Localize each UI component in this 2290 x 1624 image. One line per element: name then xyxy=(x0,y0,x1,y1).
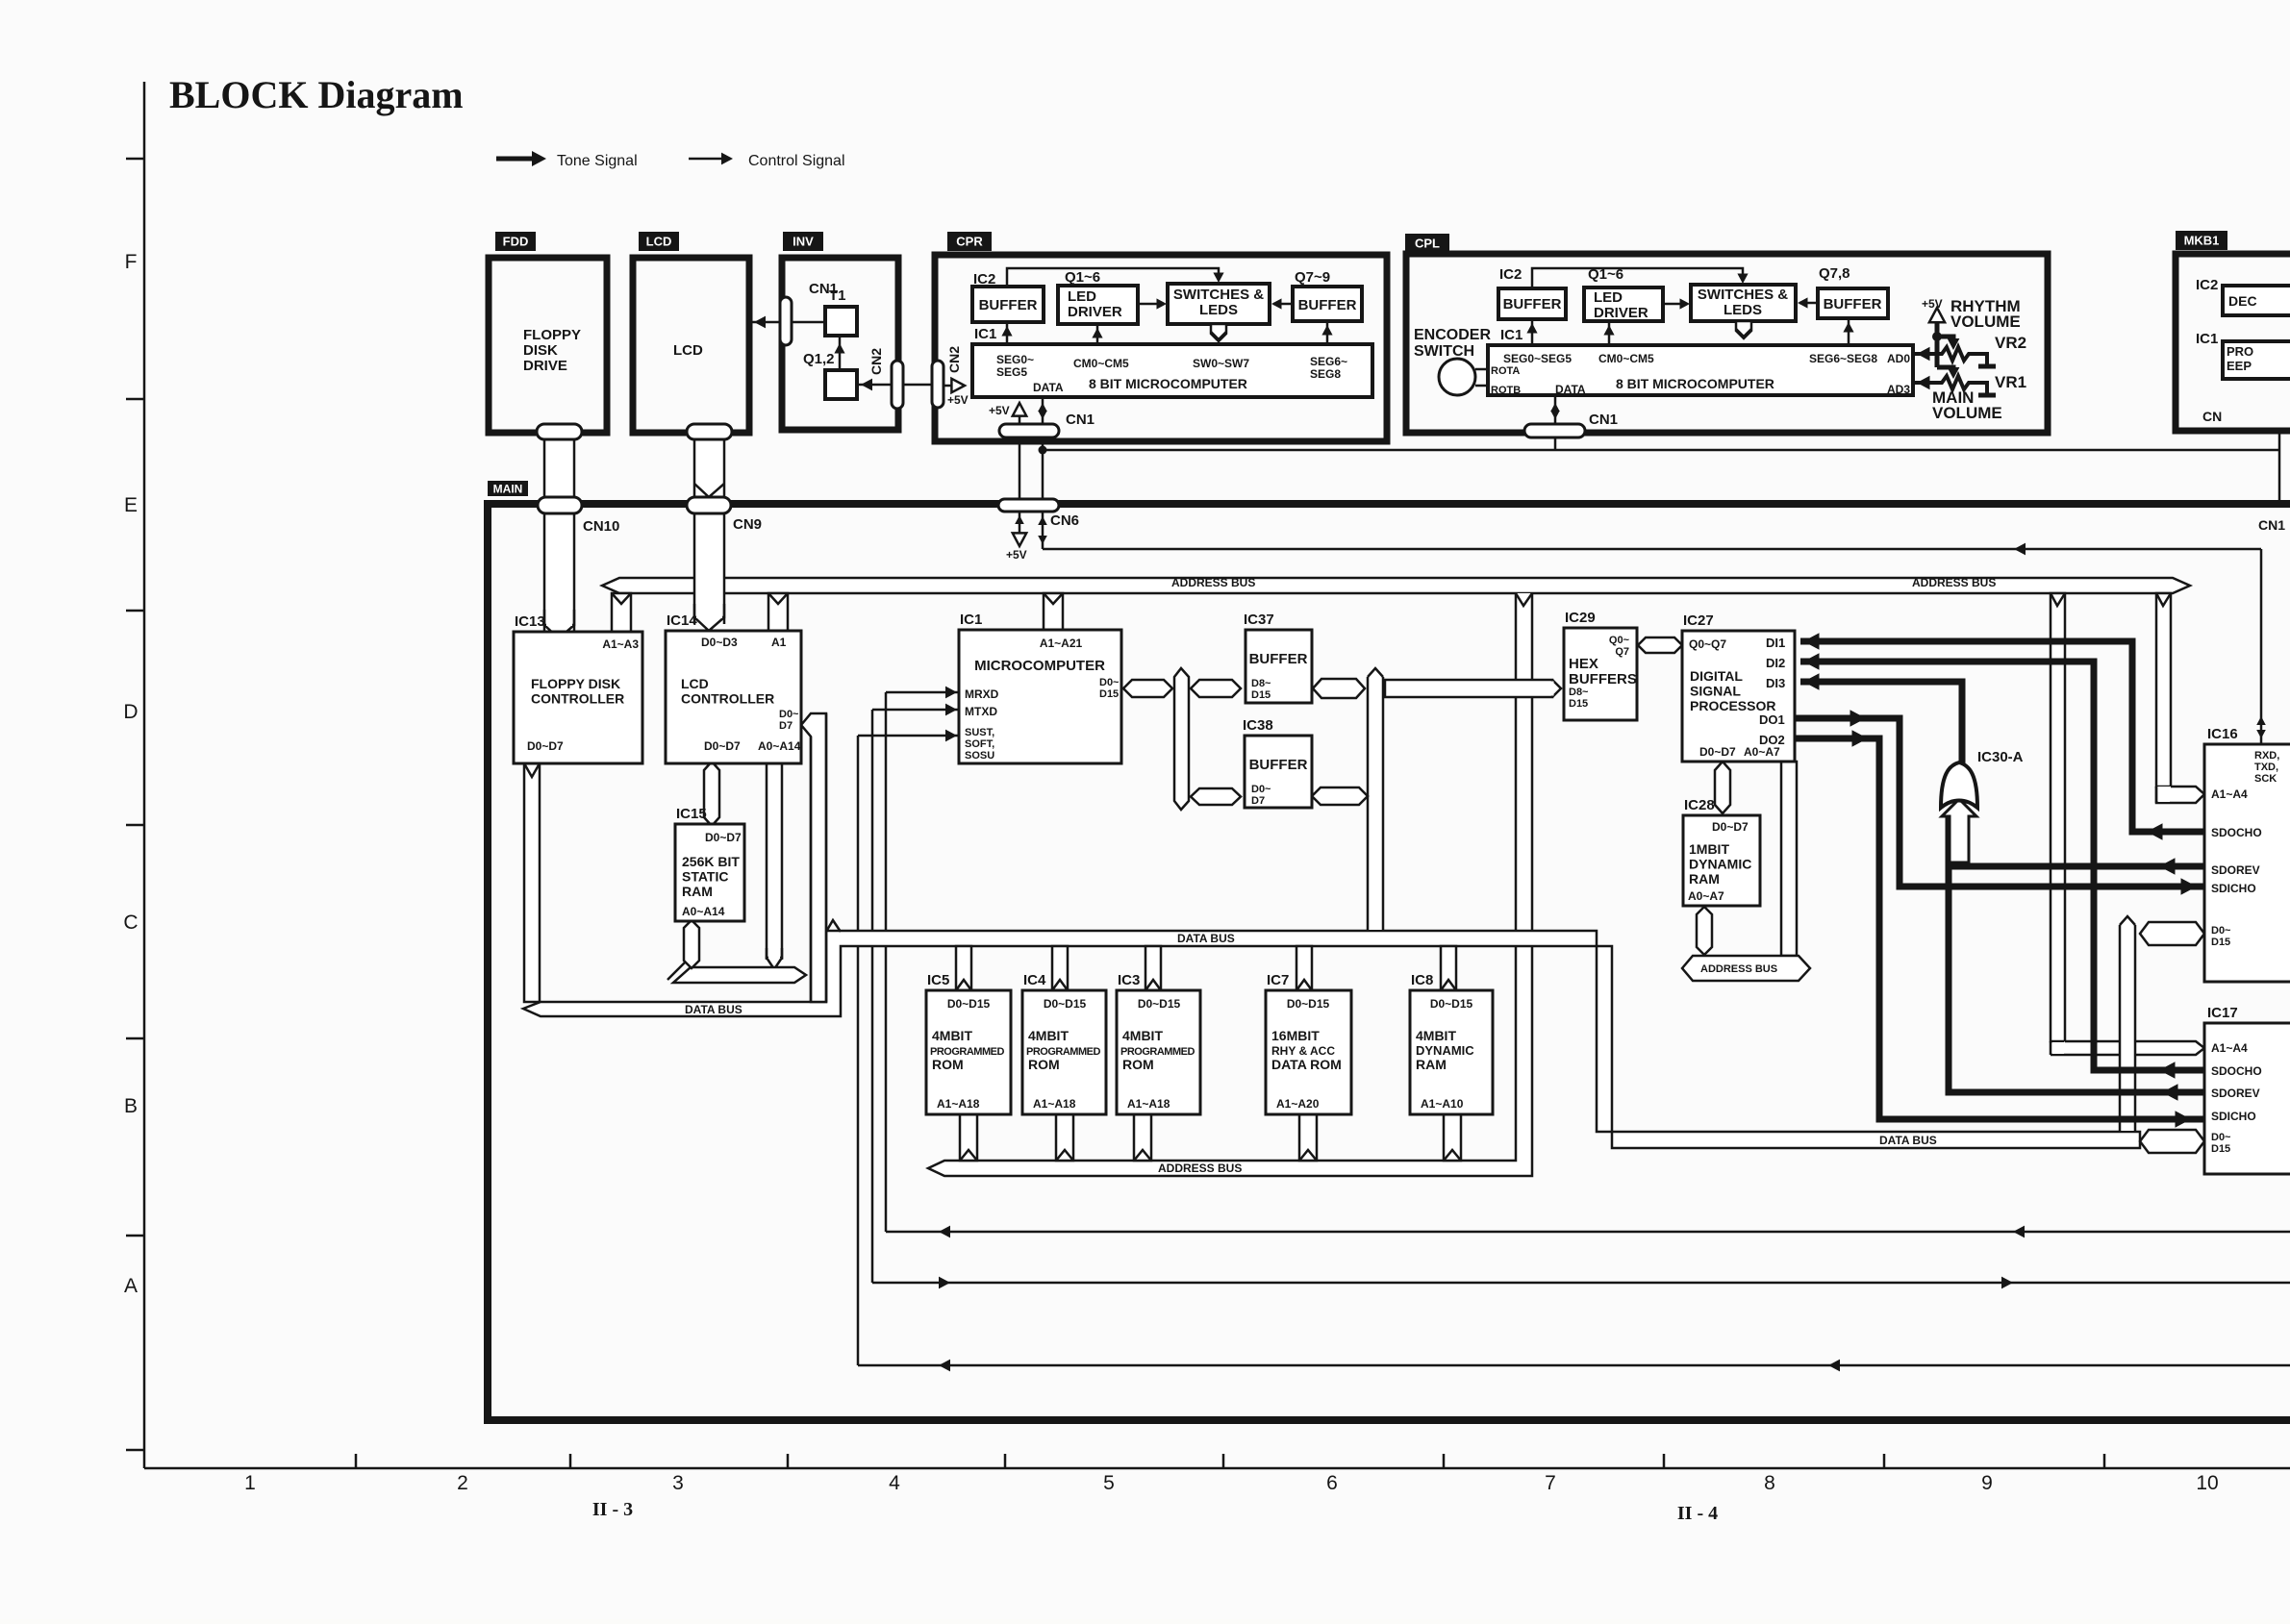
svg-text:SEG0~: SEG0~ xyxy=(996,353,1034,366)
svg-text:D15: D15 xyxy=(1099,688,1119,700)
svg-text:SUST,: SUST, xyxy=(965,727,994,738)
svg-text:A1~A18: A1~A18 xyxy=(1033,1097,1076,1111)
svg-text:256K BIT: 256K BIT xyxy=(682,854,740,869)
svg-text:SCK: SCK xyxy=(2254,773,2277,785)
svg-text:D7: D7 xyxy=(779,720,793,732)
svg-text:D0~: D0~ xyxy=(1251,784,1271,795)
svg-text:CN6: CN6 xyxy=(1050,512,1079,529)
svg-text:4MBIT: 4MBIT xyxy=(932,1028,972,1043)
svg-text:BUFFER: BUFFER xyxy=(1298,297,1357,313)
svg-text:C: C xyxy=(123,912,138,934)
svg-text:AD3: AD3 xyxy=(1887,383,1910,396)
svg-text:LEDS: LEDS xyxy=(1199,302,1238,318)
svg-text:IC4: IC4 xyxy=(1023,972,1046,988)
svg-text:6: 6 xyxy=(1326,1472,1338,1494)
svg-text:D0~D15: D0~D15 xyxy=(1138,997,1181,1011)
svg-text:FLOPPY: FLOPPY xyxy=(523,327,581,343)
svg-text:BUFFER: BUFFER xyxy=(1249,757,1308,773)
svg-text:CN1: CN1 xyxy=(1589,412,1618,428)
svg-text:CN2: CN2 xyxy=(868,348,884,375)
svg-text:CN9: CN9 xyxy=(733,516,762,533)
svg-text:A0~A7: A0~A7 xyxy=(1688,889,1724,903)
svg-text:CPR: CPR xyxy=(956,235,983,249)
svg-text:A0~A14: A0~A14 xyxy=(682,905,725,918)
svg-text:4: 4 xyxy=(889,1472,900,1494)
svg-text:D0~D7: D0~D7 xyxy=(527,739,564,753)
svg-text:DATA ROM: DATA ROM xyxy=(1271,1057,1342,1072)
svg-text:D15: D15 xyxy=(1251,689,1271,701)
svg-text:CN1: CN1 xyxy=(2258,517,2285,533)
svg-text:B: B xyxy=(124,1095,138,1117)
svg-text:IC17: IC17 xyxy=(2207,1005,2238,1021)
svg-text:IC1: IC1 xyxy=(974,326,996,342)
svg-text:D0~D7: D0~D7 xyxy=(705,831,742,844)
svg-text:FLOPPY DISK: FLOPPY DISK xyxy=(531,676,620,691)
svg-text:SDOCHO: SDOCHO xyxy=(2211,826,2262,839)
svg-text:ROTA: ROTA xyxy=(1491,365,1520,377)
svg-text:EEP: EEP xyxy=(2227,359,2252,373)
svg-text:RXD,: RXD, xyxy=(2254,750,2279,762)
svg-text:RHY & ACC: RHY & ACC xyxy=(1271,1044,1335,1058)
svg-text:IC37: IC37 xyxy=(1244,612,1274,628)
svg-text:Q7,8: Q7,8 xyxy=(1819,265,1850,282)
svg-text:CONTROLLER: CONTROLLER xyxy=(531,691,624,707)
svg-text:IC28: IC28 xyxy=(1684,797,1715,813)
svg-text:MAIN: MAIN xyxy=(493,482,523,495)
svg-text:IC3: IC3 xyxy=(1118,972,1140,988)
svg-text:SDOCHO: SDOCHO xyxy=(2211,1064,2262,1078)
svg-text:Q1,2: Q1,2 xyxy=(803,351,835,367)
svg-text:AD0: AD0 xyxy=(1887,352,1910,365)
svg-text:D0~D15: D0~D15 xyxy=(1287,997,1330,1011)
svg-text:LEDS: LEDS xyxy=(1724,302,1762,318)
svg-text:D0~D15: D0~D15 xyxy=(1044,997,1087,1011)
svg-text:CM0~CM5: CM0~CM5 xyxy=(1073,357,1129,370)
svg-text:E: E xyxy=(124,494,138,516)
svg-text:D0~D15: D0~D15 xyxy=(1430,997,1473,1011)
svg-text:IC1: IC1 xyxy=(960,612,982,628)
svg-text:MICROCOMPUTER: MICROCOMPUTER xyxy=(974,658,1105,674)
svg-text:A1~A21: A1~A21 xyxy=(1040,637,1083,650)
svg-text:D8~: D8~ xyxy=(1569,687,1589,698)
svg-text:ENCODER: ENCODER xyxy=(1414,327,1491,343)
svg-text:SDOREV: SDOREV xyxy=(2211,863,2260,877)
svg-text:A0~A14: A0~A14 xyxy=(758,739,801,753)
svg-text:CM0~CM5: CM0~CM5 xyxy=(1598,352,1654,365)
svg-text:4MBIT: 4MBIT xyxy=(1122,1028,1163,1043)
svg-text:BUFFER: BUFFER xyxy=(1824,296,1882,312)
svg-text:DATA: DATA xyxy=(1555,383,1586,396)
svg-text:DO1: DO1 xyxy=(1759,712,1785,727)
svg-text:D15: D15 xyxy=(1569,698,1588,710)
svg-text:VR2: VR2 xyxy=(1995,334,2026,352)
svg-text:MRXD: MRXD xyxy=(965,687,999,701)
svg-text:SIGNAL: SIGNAL xyxy=(1690,684,1741,699)
svg-text:D0~: D0~ xyxy=(779,709,799,720)
svg-text:ADDRESS BUS: ADDRESS BUS xyxy=(1171,576,1255,589)
svg-text:ADDRESS BUS: ADDRESS BUS xyxy=(1158,1162,1242,1175)
svg-text:BLOCK Diagram: BLOCK Diagram xyxy=(169,73,464,116)
svg-text:D: D xyxy=(123,701,138,723)
svg-text:VOLUME: VOLUME xyxy=(1950,312,2021,331)
svg-text:DRIVE: DRIVE xyxy=(523,358,567,374)
svg-text:BUFFER: BUFFER xyxy=(1249,651,1308,667)
svg-text:ROM: ROM xyxy=(1028,1057,1060,1072)
svg-text:4MBIT: 4MBIT xyxy=(1416,1028,1456,1043)
svg-text:IC30-A: IC30-A xyxy=(1977,749,2024,765)
svg-text:IC29: IC29 xyxy=(1565,610,1596,626)
svg-text:T1: T1 xyxy=(829,287,846,304)
svg-text:8 BIT MICROCOMPUTER: 8 BIT MICROCOMPUTER xyxy=(1089,376,1247,391)
svg-text:IC2: IC2 xyxy=(2196,277,2218,293)
svg-text:IC5: IC5 xyxy=(927,972,949,988)
svg-text:ADDRESS BUS: ADDRESS BUS xyxy=(1912,576,1996,589)
svg-text:DATA: DATA xyxy=(1033,381,1064,394)
svg-text:+5V: +5V xyxy=(989,404,1010,417)
svg-text:9: 9 xyxy=(1981,1472,1993,1494)
svg-text:TXD,: TXD, xyxy=(2254,762,2278,773)
svg-text:+5V: +5V xyxy=(947,393,969,407)
svg-text:SWITCHES &: SWITCHES & xyxy=(1698,287,1788,303)
svg-text:II - 4: II - 4 xyxy=(1677,1503,1718,1524)
svg-text:SEG6~: SEG6~ xyxy=(1310,355,1347,368)
svg-text:DRIVER: DRIVER xyxy=(1068,304,1122,320)
svg-text:VR1: VR1 xyxy=(1995,373,2026,391)
svg-text:F: F xyxy=(125,251,138,273)
svg-text:+5V: +5V xyxy=(1922,297,1943,311)
svg-text:2: 2 xyxy=(457,1472,468,1494)
svg-text:SW0~SW7: SW0~SW7 xyxy=(1193,357,1249,370)
svg-text:A1~A20: A1~A20 xyxy=(1276,1097,1320,1111)
svg-text:A1~A3: A1~A3 xyxy=(602,637,639,651)
svg-text:7: 7 xyxy=(1545,1472,1556,1494)
svg-text:IC27: IC27 xyxy=(1683,612,1714,629)
svg-text:MKB1: MKB1 xyxy=(2184,234,2220,248)
svg-text:LED: LED xyxy=(1068,288,1096,305)
svg-text:RAM: RAM xyxy=(1689,871,1720,887)
svg-text:RAM: RAM xyxy=(682,884,713,899)
svg-text:D0~: D0~ xyxy=(1099,677,1120,688)
svg-text:DATA BUS: DATA BUS xyxy=(685,1003,742,1016)
svg-text:CN10: CN10 xyxy=(583,518,619,535)
svg-text:Q1~6: Q1~6 xyxy=(1065,269,1100,286)
svg-text:IC14: IC14 xyxy=(667,612,697,629)
svg-text:Q7: Q7 xyxy=(1615,646,1629,658)
svg-text:IC7: IC7 xyxy=(1267,972,1289,988)
svg-text:ROM: ROM xyxy=(932,1057,964,1072)
svg-text:D0~D7: D0~D7 xyxy=(704,739,741,753)
svg-text:LED: LED xyxy=(1594,289,1623,306)
svg-text:CN: CN xyxy=(2202,409,2222,424)
svg-text:D0~D15: D0~D15 xyxy=(947,997,991,1011)
svg-text:3: 3 xyxy=(672,1472,684,1494)
svg-text:ROM: ROM xyxy=(1122,1057,1154,1072)
svg-text:HEX: HEX xyxy=(1569,656,1598,672)
svg-text:CONTROLLER: CONTROLLER xyxy=(681,691,774,707)
svg-text:SOSU: SOSU xyxy=(965,750,994,762)
svg-text:DI3: DI3 xyxy=(1766,676,1785,690)
svg-text:A1~A18: A1~A18 xyxy=(1127,1097,1170,1111)
svg-text:LCD: LCD xyxy=(681,676,709,691)
svg-text:A1: A1 xyxy=(771,636,787,649)
svg-text:D0~D7: D0~D7 xyxy=(1699,745,1736,759)
svg-text:SDICHO: SDICHO xyxy=(2211,1110,2256,1123)
svg-text:DI1: DI1 xyxy=(1766,636,1785,650)
svg-text:DISK: DISK xyxy=(523,342,558,359)
svg-text:SDOREV: SDOREV xyxy=(2211,1087,2260,1100)
svg-text:1MBIT: 1MBIT xyxy=(1689,841,1729,857)
svg-text:Q7~9: Q7~9 xyxy=(1295,269,1330,286)
svg-text:16MBIT: 16MBIT xyxy=(1271,1028,1320,1043)
svg-text:4MBIT: 4MBIT xyxy=(1028,1028,1069,1043)
svg-text:DYNAMIC: DYNAMIC xyxy=(1689,857,1751,872)
svg-text:A1~A4: A1~A4 xyxy=(2211,787,2248,801)
svg-text:Control Signal: Control Signal xyxy=(748,153,845,169)
svg-text:SWITCH: SWITCH xyxy=(1414,343,1474,360)
svg-text:5: 5 xyxy=(1103,1472,1115,1494)
svg-text:D15: D15 xyxy=(2211,937,2230,948)
svg-text:10: 10 xyxy=(2196,1472,2218,1494)
svg-text:DEC: DEC xyxy=(2228,293,2257,309)
svg-text:SOFT,: SOFT, xyxy=(965,738,994,750)
svg-text:8 BIT MICROCOMPUTER: 8 BIT MICROCOMPUTER xyxy=(1616,376,1774,391)
svg-text:SEG8: SEG8 xyxy=(1310,367,1341,381)
svg-text:IC16: IC16 xyxy=(2207,726,2238,742)
svg-text:RAM: RAM xyxy=(1416,1057,1447,1072)
svg-text:D0~: D0~ xyxy=(2211,1132,2231,1143)
svg-text:CN1: CN1 xyxy=(1066,412,1095,428)
svg-text:D0~: D0~ xyxy=(2211,925,2231,937)
svg-text:1: 1 xyxy=(244,1472,256,1494)
svg-text:PRO: PRO xyxy=(2227,344,2253,359)
svg-text:MTXD: MTXD xyxy=(965,705,997,718)
svg-text:SDICHO: SDICHO xyxy=(2211,882,2256,895)
svg-text:LCD: LCD xyxy=(646,235,672,249)
svg-text:DRIVER: DRIVER xyxy=(1594,305,1648,321)
svg-text:8: 8 xyxy=(1764,1472,1775,1494)
svg-text:IC1: IC1 xyxy=(1500,327,1522,343)
svg-text:II - 3: II - 3 xyxy=(592,1499,633,1520)
svg-text:SEG0~SEG5: SEG0~SEG5 xyxy=(1503,352,1572,365)
svg-text:SEG6~SEG8: SEG6~SEG8 xyxy=(1809,352,1877,365)
svg-text:A1~A18: A1~A18 xyxy=(937,1097,980,1111)
svg-text:D0~D3: D0~D3 xyxy=(701,636,738,649)
svg-text:SWITCHES &: SWITCHES & xyxy=(1173,287,1264,303)
svg-text:A1~A10: A1~A10 xyxy=(1421,1097,1464,1111)
svg-text:DATA BUS: DATA BUS xyxy=(1879,1134,1937,1147)
svg-text:Q0~: Q0~ xyxy=(1609,635,1630,646)
svg-text:CPL: CPL xyxy=(1415,237,1440,251)
svg-text:ROTB: ROTB xyxy=(1491,385,1521,396)
svg-text:IC38: IC38 xyxy=(1243,717,1273,734)
svg-text:Q0~Q7: Q0~Q7 xyxy=(1689,637,1726,651)
svg-text:D7: D7 xyxy=(1251,795,1265,807)
svg-text:INV: INV xyxy=(793,235,814,249)
svg-text:BUFFERS: BUFFERS xyxy=(1569,671,1637,687)
svg-text:PROCESSOR: PROCESSOR xyxy=(1690,698,1775,713)
svg-text:CN2: CN2 xyxy=(946,346,962,373)
svg-text:D15: D15 xyxy=(2211,1143,2230,1155)
svg-text:IC15: IC15 xyxy=(676,806,707,822)
svg-text:A: A xyxy=(124,1275,138,1297)
svg-text:A0~A7: A0~A7 xyxy=(1744,745,1780,759)
svg-text:A1~A4: A1~A4 xyxy=(2211,1041,2248,1055)
svg-text:SEG5: SEG5 xyxy=(996,365,1027,379)
svg-text:IC1: IC1 xyxy=(2196,331,2218,347)
svg-text:IC8: IC8 xyxy=(1411,972,1433,988)
svg-text:DI2: DI2 xyxy=(1766,656,1785,670)
svg-text:+5V: +5V xyxy=(1006,548,1027,562)
svg-text:BUFFER: BUFFER xyxy=(1503,296,1562,312)
svg-text:DYNAMIC: DYNAMIC xyxy=(1416,1043,1474,1058)
svg-text:DIGITAL: DIGITAL xyxy=(1690,668,1743,684)
svg-text:D0~D7: D0~D7 xyxy=(1712,820,1749,834)
svg-text:D8~: D8~ xyxy=(1251,678,1271,689)
svg-text:Tone Signal: Tone Signal xyxy=(557,153,638,169)
svg-text:ADDRESS BUS: ADDRESS BUS xyxy=(1700,963,1777,975)
svg-text:STATIC: STATIC xyxy=(682,869,728,885)
svg-text:IC13: IC13 xyxy=(515,613,545,630)
svg-text:FDD: FDD xyxy=(503,235,529,249)
svg-text:LCD: LCD xyxy=(673,342,703,359)
svg-text:VOLUME: VOLUME xyxy=(1932,404,2002,422)
svg-text:BUFFER: BUFFER xyxy=(979,297,1038,313)
svg-text:IC2: IC2 xyxy=(1499,266,1522,283)
svg-text:DATA BUS: DATA BUS xyxy=(1177,932,1235,945)
